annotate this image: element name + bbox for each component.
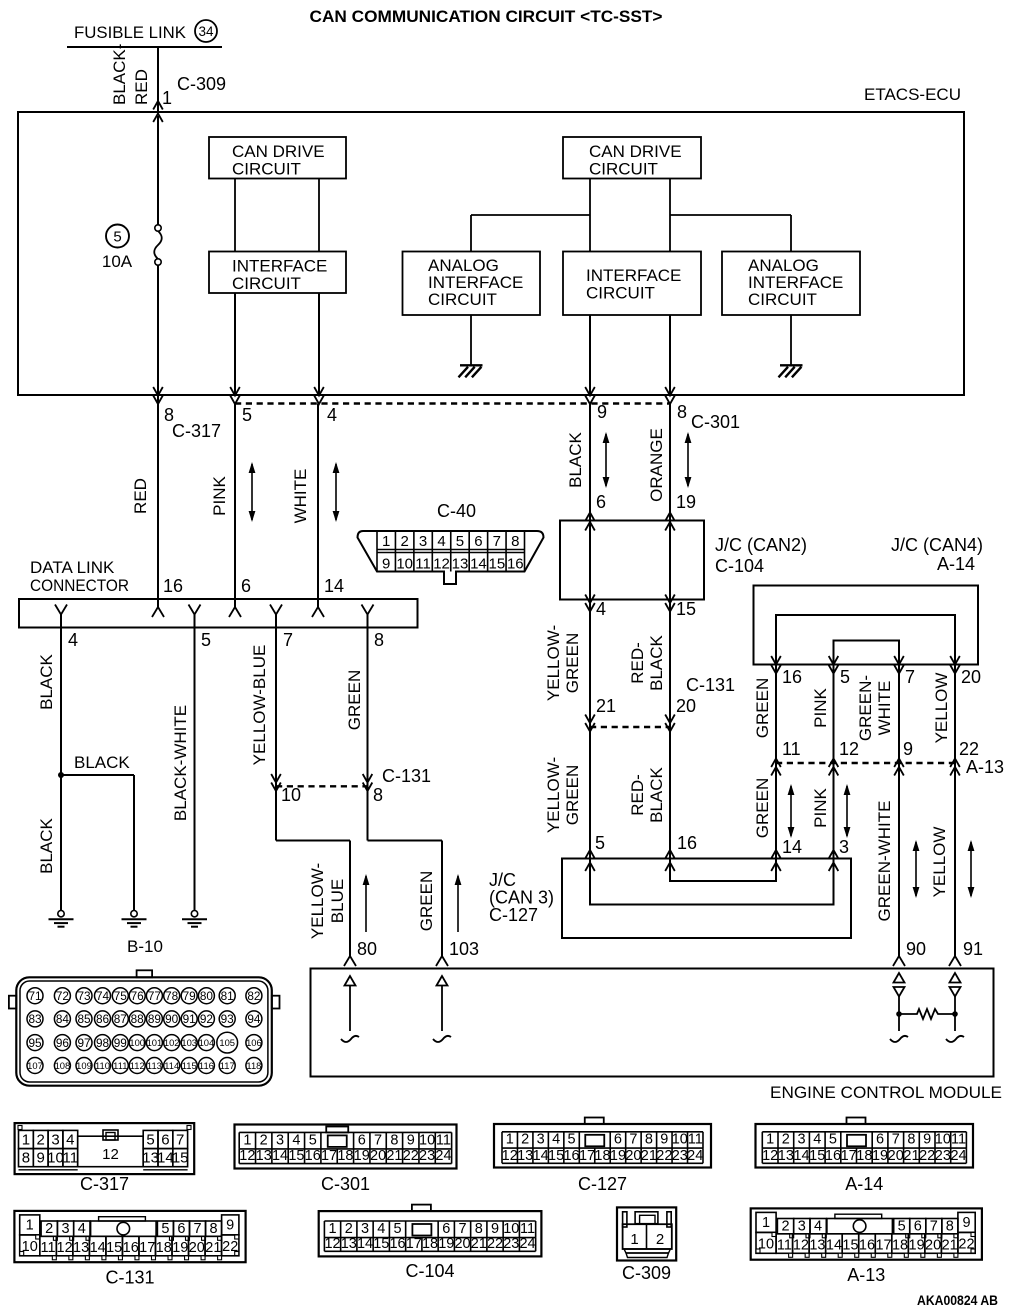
svg-text:ORANGE: ORANGE [647, 428, 666, 502]
svg-text:13: 13 [73, 1240, 89, 1256]
svg-text:96: 96 [56, 1036, 70, 1050]
svg-text:2: 2 [37, 1132, 45, 1149]
svg-text:77: 77 [148, 989, 161, 1003]
svg-text:15: 15 [676, 599, 696, 619]
svg-text:81: 81 [221, 989, 234, 1003]
svg-text:85: 85 [77, 1012, 91, 1026]
svg-text:10: 10 [419, 1132, 435, 1148]
svg-text:C-40: C-40 [437, 501, 476, 521]
svg-text:5: 5 [113, 229, 121, 246]
svg-text:8: 8 [907, 1132, 915, 1148]
wire GREEN DLC pin 8 down [367, 628, 369, 841]
svg-text:11: 11 [63, 1150, 79, 1167]
svg-text:8: 8 [475, 1221, 483, 1237]
wire through C-104 b [669, 521, 671, 600]
svg-text:14: 14 [782, 837, 802, 857]
svg-text:YELLOW-BLUE: YELLOW-BLUE [250, 645, 269, 766]
svg-text:11: 11 [688, 1132, 703, 1148]
svg-text:BLACK: BLACK [37, 817, 56, 873]
svg-text:83: 83 [28, 1012, 42, 1026]
direction arrow BLACK [605, 434, 607, 486]
fusible link bus bar [67, 46, 222, 48]
CAN DRIVE CIRCUIT box right [563, 137, 701, 179]
svg-text:2: 2 [656, 1231, 664, 1248]
CAN DRIVE CIRCUIT box left [209, 137, 346, 179]
svg-text:17: 17 [321, 1148, 337, 1164]
svg-text:4: 4 [66, 1132, 74, 1149]
svg-text:105: 105 [219, 1037, 235, 1048]
svg-text:11: 11 [41, 1240, 56, 1256]
svg-text:15: 15 [106, 1240, 122, 1256]
svg-text:71: 71 [28, 989, 41, 1003]
arrow through C-131 pin 21 [585, 715, 595, 724]
svg-text:88: 88 [131, 1012, 145, 1026]
svg-text:24: 24 [950, 1148, 966, 1164]
svg-text:90: 90 [906, 939, 926, 959]
svg-text:5: 5 [829, 1132, 837, 1148]
arrow into C-127 pin 3 [829, 850, 839, 859]
svg-text:3: 3 [61, 1221, 69, 1237]
arrow through A-13 pin 22 [950, 759, 960, 768]
svg-text:14: 14 [324, 576, 344, 596]
wire YELLOW A-14 to A-13 [954, 665, 956, 764]
svg-text:11: 11 [777, 1238, 792, 1254]
direction arrow PINK [846, 786, 848, 836]
svg-text:1: 1 [382, 533, 390, 550]
svg-text:14: 14 [793, 1148, 809, 1164]
svg-text:95: 95 [28, 1036, 42, 1050]
svg-text:1: 1 [506, 1132, 514, 1148]
svg-text:RED-: RED- [628, 774, 647, 816]
svg-text:1: 1 [328, 1221, 336, 1237]
svg-text:8: 8 [210, 1221, 218, 1237]
svg-text:16: 16 [859, 1238, 875, 1254]
svg-text:98: 98 [96, 1036, 110, 1050]
svg-text:2: 2 [45, 1221, 53, 1237]
svg-text:18: 18 [892, 1238, 908, 1254]
svg-text:9: 9 [660, 1132, 668, 1148]
svg-text:12: 12 [502, 1148, 518, 1164]
svg-text:5: 5 [201, 630, 211, 650]
svg-text:7: 7 [905, 667, 915, 687]
svg-text:BLACK: BLACK [647, 766, 666, 822]
svg-text:B-10: B-10 [127, 937, 163, 956]
svg-text:14: 14 [90, 1240, 106, 1256]
svg-text:CAN DRIVE: CAN DRIVE [232, 142, 325, 161]
wire GREEN jog [368, 840, 443, 842]
svg-text:5: 5 [840, 667, 850, 687]
svg-text:3: 3 [839, 837, 849, 857]
svg-text:12: 12 [239, 1148, 255, 1164]
svg-text:18: 18 [422, 1236, 438, 1252]
wire GREEN A-13 to C-127 pin 14 [775, 763, 777, 859]
svg-text:CIRCUIT: CIRCUIT [232, 160, 301, 179]
ANALOG INTERFACE CIRCUIT box right [722, 252, 860, 316]
connector C-131 face [14, 1211, 245, 1262]
svg-text:A-14: A-14 [937, 554, 975, 574]
svg-text:110: 110 [95, 1060, 110, 1071]
arrow through C-131 pin 8 [363, 774, 373, 783]
wire YELLOW A-13 to ECM pin 91 [954, 763, 956, 956]
svg-text:84: 84 [56, 1012, 70, 1026]
wire CAN DRIVE right to INTERFACE b [669, 179, 671, 252]
arrow through A-13 pin 9 [894, 759, 904, 768]
svg-text:DATA LINK: DATA LINK [30, 558, 115, 577]
connector C-131 dashed line left [276, 785, 368, 787]
svg-text:19: 19 [610, 1148, 626, 1164]
terminal ECM pin 91 [949, 956, 961, 966]
svg-text:89: 89 [148, 1012, 161, 1026]
ground B-10 left [58, 911, 64, 917]
arrow out A-14 pin 5 [829, 656, 839, 665]
svg-text:CAN COMMUNICATION CIRCUIT <TC-: CAN COMMUNICATION CIRCUIT <TC-SST> [310, 7, 663, 26]
ground connector B-10 face [16, 977, 271, 1085]
direction arrow to pin 103 [457, 876, 459, 932]
svg-text:1: 1 [243, 1132, 251, 1148]
svg-text:3: 3 [419, 533, 427, 550]
wire BLACK branch down [133, 775, 135, 911]
connector A-13 face [751, 1208, 982, 1259]
svg-text:RED: RED [131, 478, 150, 514]
svg-text:1: 1 [26, 1218, 34, 1234]
svg-text:5: 5 [898, 1219, 906, 1235]
connector A-13 dashed line [776, 762, 955, 764]
svg-text:12: 12 [57, 1240, 73, 1256]
arrow out C-104 pin 15 [665, 595, 675, 604]
svg-text:8: 8 [511, 533, 519, 550]
arrow into C-104 pin 6 [585, 513, 595, 522]
svg-text:C-301: C-301 [321, 1174, 370, 1194]
svg-text:9: 9 [226, 1218, 234, 1234]
svg-text:4: 4 [552, 1132, 560, 1148]
A-14 bus PINK-GREEN-WHITE [834, 641, 900, 665]
svg-text:21: 21 [471, 1236, 487, 1252]
svg-text:6: 6 [474, 533, 482, 550]
svg-text:24: 24 [687, 1148, 703, 1164]
wire RED-BLACK C-104 to C-127 [669, 600, 671, 859]
svg-text:22: 22 [403, 1148, 419, 1164]
ground analog left [460, 364, 483, 366]
arrow out pin 8 left [153, 387, 163, 396]
svg-text:5: 5 [456, 533, 464, 550]
svg-text:4: 4 [377, 1221, 385, 1237]
svg-text:87: 87 [114, 1012, 127, 1026]
svg-text:CIRCUIT: CIRCUIT [589, 160, 658, 179]
terminal pin 5 [189, 605, 201, 615]
svg-text:22: 22 [959, 739, 979, 759]
svg-text:9: 9 [382, 556, 390, 573]
wire WHITE pin 4 to DLC pin 14 [317, 404, 319, 609]
svg-text:CIRCUIT: CIRCUIT [748, 290, 817, 309]
wire INTERFACE left to pin 5 [234, 293, 236, 395]
svg-text:21: 21 [205, 1240, 221, 1256]
svg-text:11: 11 [436, 1132, 451, 1148]
svg-text:5: 5 [146, 1132, 154, 1149]
terminal pin 8 [362, 605, 374, 615]
svg-text:6: 6 [241, 576, 251, 596]
svg-text:102: 102 [164, 1037, 180, 1048]
svg-text:YELLOW-: YELLOW- [544, 625, 563, 701]
wire fusible link to ETACS pin 1 [157, 47, 159, 112]
junction connector A-14 housing [754, 586, 979, 665]
arrow out pin 9 [585, 387, 595, 396]
svg-text:C-309: C-309 [177, 74, 226, 94]
svg-text:79: 79 [183, 989, 196, 1003]
svg-text:15: 15 [809, 1148, 825, 1164]
svg-text:5: 5 [568, 1132, 576, 1148]
svg-text:118: 118 [246, 1060, 261, 1071]
wire analog left to ground [470, 315, 472, 365]
svg-text:4: 4 [292, 1132, 300, 1148]
svg-text:82: 82 [247, 989, 260, 1003]
svg-text:18: 18 [156, 1240, 172, 1256]
svg-text:15: 15 [842, 1238, 858, 1254]
terminal pin 4 [55, 605, 67, 615]
terminal pin 16 [152, 607, 164, 617]
svg-text:20: 20 [189, 1240, 205, 1256]
connector C-40 body [358, 531, 544, 584]
svg-text:7: 7 [930, 1219, 938, 1235]
wire PINK A-13 to C-127 pin 3 [833, 763, 835, 859]
arrow through A-13 pin 12 [829, 759, 839, 768]
svg-text:8: 8 [22, 1150, 30, 1167]
svg-text:117: 117 [220, 1060, 235, 1071]
svg-text:104: 104 [199, 1037, 215, 1048]
direction arrow PINK [251, 464, 253, 520]
svg-text:18: 18 [337, 1148, 353, 1164]
svg-text:18: 18 [594, 1148, 610, 1164]
arrow into C-127 pin 5 [585, 850, 595, 859]
svg-text:BLACK-WHITE: BLACK-WHITE [171, 705, 190, 821]
svg-text:BLACK: BLACK [37, 653, 56, 709]
svg-text:11: 11 [951, 1132, 966, 1148]
svg-text:19: 19 [438, 1236, 454, 1252]
svg-text:7: 7 [629, 1132, 637, 1148]
connector C-317 face [15, 1123, 195, 1174]
svg-text:6: 6 [876, 1132, 884, 1148]
svg-text:17: 17 [875, 1238, 891, 1254]
ECM terminating circuit pin 91 [950, 973, 961, 983]
svg-text:20: 20 [925, 1238, 941, 1254]
direction arrow WHITE [335, 464, 337, 520]
svg-text:RED-: RED- [628, 642, 647, 684]
svg-text:13: 13 [517, 1148, 533, 1164]
terminal pin 7 [270, 605, 282, 615]
terminal pin 6 [229, 607, 241, 617]
svg-text:16: 16 [782, 667, 802, 687]
svg-text:10: 10 [672, 1132, 688, 1148]
C-127 bus pins 16-14 [670, 859, 776, 882]
ECM internal arrow pin 103 [437, 976, 448, 986]
svg-text:9: 9 [597, 402, 607, 422]
svg-text:13: 13 [452, 556, 469, 573]
svg-text:107: 107 [27, 1060, 43, 1071]
terminal pin 14 [312, 607, 324, 617]
svg-text:C-131: C-131 [105, 1268, 154, 1288]
svg-text:113: 113 [147, 1060, 162, 1071]
svg-text:6: 6 [442, 1221, 450, 1237]
svg-text:2: 2 [521, 1132, 529, 1148]
svg-text:4: 4 [437, 533, 445, 550]
svg-text:12: 12 [102, 1146, 119, 1163]
svg-text:8: 8 [374, 630, 384, 650]
connector C-309 face [617, 1207, 676, 1260]
arrow out A-14 pin 16 [771, 656, 781, 665]
svg-text:8: 8 [373, 785, 383, 805]
svg-text:J/C (CAN4): J/C (CAN4) [891, 535, 983, 555]
svg-text:34: 34 [198, 24, 214, 39]
svg-text:BLACK-: BLACK- [110, 44, 129, 105]
svg-text:4: 4 [68, 630, 78, 650]
svg-text:23: 23 [672, 1148, 688, 1164]
svg-text:103: 103 [449, 939, 479, 959]
svg-text:12: 12 [793, 1238, 809, 1254]
wire CAN DRIVE to INTERFACE left a [234, 179, 236, 252]
svg-text:GREEN: GREEN [753, 778, 772, 838]
svg-text:4: 4 [813, 1132, 821, 1148]
svg-text:18: 18 [856, 1148, 872, 1164]
svg-text:22: 22 [919, 1148, 935, 1164]
svg-text:116: 116 [199, 1060, 214, 1071]
svg-text:14: 14 [826, 1238, 842, 1254]
wire GREEN-WHITE A-14 to A-13 [898, 665, 900, 764]
svg-text:PINK: PINK [811, 788, 830, 828]
svg-text:21: 21 [641, 1148, 657, 1164]
svg-text:7: 7 [283, 630, 293, 650]
wire INTERFACE left to pin 4 [318, 293, 320, 395]
svg-text:6: 6 [177, 1221, 185, 1237]
svg-text:13: 13 [341, 1236, 357, 1252]
wire YELLOW-GREEN C-104 to C-127 [589, 600, 591, 859]
arrow into C-127 pin 16 [665, 850, 675, 859]
svg-text:93: 93 [221, 1012, 235, 1026]
svg-text:6: 6 [358, 1132, 366, 1148]
svg-text:109: 109 [76, 1060, 92, 1071]
svg-text:115: 115 [182, 1060, 197, 1071]
svg-text:16: 16 [563, 1148, 579, 1164]
svg-text:9: 9 [37, 1150, 45, 1167]
svg-text:15: 15 [172, 1150, 189, 1167]
svg-text:6: 6 [614, 1132, 622, 1148]
svg-text:GREEN: GREEN [345, 670, 364, 730]
svg-text:74: 74 [96, 989, 110, 1003]
svg-text:WHITE: WHITE [291, 469, 310, 524]
svg-text:6: 6 [914, 1219, 922, 1235]
svg-text:C-317: C-317 [172, 421, 221, 441]
svg-text:10A: 10A [102, 252, 133, 271]
svg-text:16: 16 [123, 1240, 139, 1256]
svg-text:16: 16 [389, 1236, 405, 1252]
svg-text:9: 9 [962, 1215, 970, 1231]
svg-text:12: 12 [433, 556, 450, 573]
svg-text:PINK: PINK [811, 688, 830, 728]
svg-text:2: 2 [400, 533, 408, 550]
svg-text:J/C (CAN2): J/C (CAN2) [715, 535, 807, 555]
ground B-10 right [191, 911, 197, 917]
svg-text:FUSIBLE LINK: FUSIBLE LINK [74, 23, 187, 42]
svg-text:16: 16 [507, 556, 524, 573]
svg-text:YELLOW: YELLOW [930, 827, 949, 898]
wire fuse to pin 8 [157, 116, 159, 225]
svg-text:3: 3 [798, 1132, 806, 1148]
svg-text:C-301: C-301 [691, 412, 740, 432]
direction arrow YELLOW [970, 842, 972, 896]
svg-text:10: 10 [503, 1221, 519, 1237]
svg-text:2: 2 [781, 1219, 789, 1235]
direction arrow ORANGE [687, 434, 689, 486]
svg-text:CIRCUIT: CIRCUIT [232, 274, 301, 293]
direction arrow GREEN [790, 786, 792, 836]
svg-text:4: 4 [78, 1221, 86, 1237]
arrow out pin 4 [314, 387, 324, 396]
connector C-131 dashed line right [590, 726, 670, 728]
svg-text:6: 6 [161, 1132, 169, 1149]
svg-text:GREEN: GREEN [563, 765, 582, 825]
svg-text:17: 17 [841, 1148, 857, 1164]
svg-text:86: 86 [96, 1012, 110, 1026]
svg-text:GREEN-WHITE: GREEN-WHITE [875, 801, 894, 922]
svg-text:16: 16 [825, 1148, 841, 1164]
svg-text:INTERFACE: INTERFACE [232, 257, 327, 276]
svg-text:14: 14 [357, 1236, 373, 1252]
svg-text:BLUE: BLUE [328, 879, 347, 923]
wire PINK A-14 to A-13 [833, 665, 835, 764]
svg-text:YELLOW-: YELLOW- [544, 757, 563, 833]
svg-text:CIRCUIT: CIRCUIT [428, 290, 497, 309]
wire GREEN A-14 to A-13 [775, 665, 777, 764]
wire CAN DRIVE to INTERFACE left b [318, 179, 320, 252]
svg-text:76: 76 [131, 989, 145, 1003]
svg-text:C-317: C-317 [80, 1174, 129, 1194]
wire branch to analog left [471, 214, 590, 216]
wire RED pin 8 to DLC pin 16 [157, 395, 159, 608]
svg-text:23: 23 [503, 1236, 519, 1252]
svg-text:1: 1 [766, 1132, 774, 1148]
svg-text:5: 5 [393, 1221, 401, 1237]
svg-text:21: 21 [942, 1238, 958, 1254]
ETACS-ECU box [18, 112, 964, 395]
svg-text:80: 80 [357, 939, 377, 959]
svg-text:8: 8 [645, 1132, 653, 1148]
svg-text:ENGINE CONTROL MODULE: ENGINE CONTROL MODULE [770, 1083, 1002, 1102]
svg-text:17: 17 [139, 1240, 155, 1256]
svg-text:11: 11 [782, 739, 801, 759]
svg-text:13: 13 [809, 1238, 825, 1254]
connector C-317 dashed line [235, 402, 670, 404]
svg-text:90: 90 [165, 1012, 179, 1026]
svg-text:5: 5 [595, 833, 605, 853]
fuse 5 10A symbol [106, 225, 129, 248]
svg-text:C-104: C-104 [406, 1261, 455, 1281]
svg-text:111: 111 [113, 1060, 127, 1071]
svg-text:106: 106 [246, 1037, 262, 1048]
svg-text:14: 14 [533, 1148, 549, 1164]
svg-text:12: 12 [762, 1148, 778, 1164]
svg-text:11: 11 [520, 1221, 535, 1237]
svg-text:14: 14 [272, 1148, 288, 1164]
svg-text:17: 17 [579, 1148, 595, 1164]
connector C-301 face [235, 1125, 457, 1169]
svg-text:3: 3 [537, 1132, 545, 1148]
svg-text:21: 21 [903, 1148, 919, 1164]
svg-text:GREEN: GREEN [753, 678, 772, 738]
svg-text:CIRCUIT: CIRCUIT [586, 284, 655, 303]
junction connector J/C CAN2 C-104 box [560, 521, 704, 600]
svg-text:21: 21 [596, 696, 616, 716]
svg-text:C-309: C-309 [622, 1263, 671, 1283]
svg-text:7: 7 [374, 1132, 382, 1148]
svg-text:2: 2 [345, 1221, 353, 1237]
